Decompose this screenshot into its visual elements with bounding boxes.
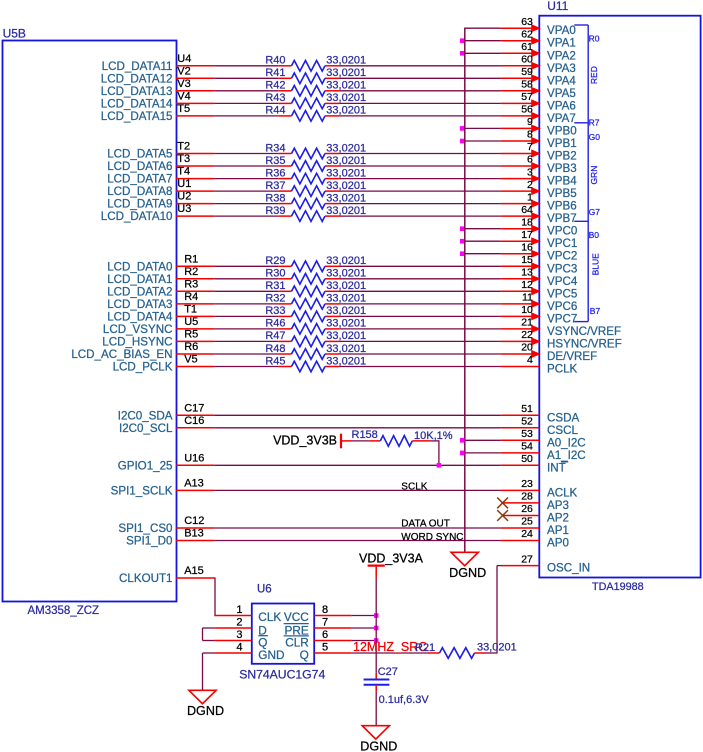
svg-text:LCD_AC_BIAS_EN: LCD_AC_BIAS_EN: [71, 348, 172, 361]
svg-text:R38: R38: [265, 192, 285, 204]
svg-text:SPI1_D0: SPI1_D0: [126, 535, 172, 548]
svg-text:VPA7: VPA7: [547, 112, 576, 125]
svg-text:VPC6: VPC6: [547, 300, 577, 313]
svg-text:AP2: AP2: [547, 512, 569, 525]
svg-text:4: 4: [527, 354, 533, 366]
svg-text:LCD_DATA7: LCD_DATA7: [107, 173, 172, 186]
svg-text:T1: T1: [184, 303, 197, 315]
svg-text:26: 26: [521, 503, 533, 515]
svg-text:33,0201: 33,0201: [326, 255, 366, 267]
svg-text:VPB0: VPB0: [547, 124, 577, 137]
svg-text:C17: C17: [184, 402, 204, 414]
svg-text:LCD_DATA10: LCD_DATA10: [101, 210, 173, 223]
svg-text:PCLK: PCLK: [547, 363, 578, 376]
svg-text:DGND: DGND: [360, 740, 397, 752]
svg-text:33,0201: 33,0201: [326, 330, 366, 342]
svg-text:R5: R5: [184, 328, 198, 340]
svg-text:CSDA: CSDA: [547, 411, 579, 424]
svg-text:A0_I2C: A0_I2C: [547, 436, 586, 449]
svg-text:R33: R33: [265, 305, 285, 317]
svg-text:1: 1: [527, 191, 533, 203]
svg-text:AP3: AP3: [547, 499, 569, 512]
svg-text:18: 18: [521, 216, 533, 228]
svg-text:CLK: CLK: [258, 610, 281, 624]
svg-text:17: 17: [521, 229, 533, 241]
svg-text:U3: U3: [177, 203, 191, 215]
svg-text:R45: R45: [265, 355, 285, 367]
svg-text:VPA3: VPA3: [547, 62, 576, 75]
svg-text:LCD_VSYNC: LCD_VSYNC: [103, 323, 173, 336]
svg-text:33,0201: 33,0201: [326, 192, 366, 204]
svg-text:33,0201: 33,0201: [477, 641, 517, 653]
svg-text:U5B: U5B: [3, 27, 26, 41]
svg-text:50: 50: [521, 453, 533, 465]
svg-text:64: 64: [521, 204, 533, 216]
svg-text:V2: V2: [177, 65, 190, 77]
svg-text:R39: R39: [265, 205, 285, 217]
svg-text:R34: R34: [265, 142, 285, 154]
svg-text:11: 11: [522, 292, 533, 304]
svg-text:G7: G7: [589, 207, 601, 217]
svg-text:VPB1: VPB1: [547, 137, 577, 150]
svg-text:R31: R31: [265, 280, 285, 292]
svg-text:22: 22: [521, 329, 533, 341]
svg-text:GND: GND: [258, 648, 284, 662]
svg-text:GPIO1_25: GPIO1_25: [118, 459, 173, 472]
svg-text:15: 15: [521, 254, 533, 266]
svg-text:I2C0_SDA: I2C0_SDA: [118, 409, 173, 422]
svg-text:25: 25: [521, 516, 533, 528]
svg-text:2: 2: [527, 179, 533, 191]
svg-text:LCD_DATA8: LCD_DATA8: [107, 185, 172, 198]
svg-text:63: 63: [521, 16, 533, 28]
svg-text:VDD_3V3B: VDD_3V3B: [273, 434, 337, 448]
svg-text:12: 12: [521, 279, 533, 291]
svg-text:R37: R37: [265, 180, 285, 192]
svg-text:33,0201: 33,0201: [326, 180, 366, 192]
svg-text:24: 24: [521, 528, 533, 540]
svg-text:VCC: VCC: [284, 610, 309, 624]
svg-text:R35: R35: [265, 155, 285, 167]
svg-text:20: 20: [521, 342, 533, 354]
svg-text:33,0201: 33,0201: [326, 155, 366, 167]
svg-text:R7: R7: [589, 118, 600, 128]
svg-text:G0: G0: [589, 132, 601, 142]
svg-text:5: 5: [322, 641, 328, 653]
svg-text:VPB6: VPB6: [547, 200, 577, 213]
svg-text:AM3358_ZCZ: AM3358_ZCZ: [28, 605, 100, 617]
svg-text:R43: R43: [265, 92, 285, 104]
svg-text:R44: R44: [265, 105, 285, 117]
svg-text:R46: R46: [265, 318, 285, 330]
svg-text:33,0201: 33,0201: [326, 167, 366, 179]
svg-text:60: 60: [521, 54, 533, 66]
svg-text:VDD_3V3A: VDD_3V3A: [359, 552, 424, 566]
svg-text:C16: C16: [184, 415, 204, 427]
svg-text:58: 58: [521, 79, 533, 91]
svg-text:LCD_DATA11: LCD_DATA11: [102, 60, 173, 73]
svg-text:T4: T4: [177, 166, 190, 178]
svg-text:VPB5: VPB5: [547, 187, 577, 200]
svg-text:LCD_DATA6: LCD_DATA6: [107, 160, 172, 173]
svg-text:2: 2: [236, 616, 242, 628]
svg-text:DGND: DGND: [449, 566, 486, 580]
svg-text:DE/VREF: DE/VREF: [547, 350, 597, 363]
svg-text:HSYNC/VREF: HSYNC/VREF: [547, 337, 622, 350]
svg-text:R21: R21: [415, 642, 435, 654]
svg-text:C27: C27: [378, 666, 398, 678]
svg-text:U2: U2: [177, 191, 191, 203]
svg-text:VPB2: VPB2: [547, 150, 577, 163]
svg-text:16: 16: [521, 241, 533, 253]
svg-text:DATA OUT: DATA OUT: [401, 519, 450, 530]
svg-text:33,0201: 33,0201: [326, 92, 366, 104]
svg-text:R36: R36: [265, 167, 285, 179]
svg-text:R3: R3: [184, 278, 198, 290]
svg-text:62: 62: [521, 28, 533, 40]
svg-text:33,0201: 33,0201: [326, 343, 366, 355]
svg-text:LCD_PCLK: LCD_PCLK: [113, 361, 173, 374]
svg-text:R29: R29: [265, 255, 285, 267]
svg-text:33,0201: 33,0201: [326, 67, 366, 79]
svg-text:AP0: AP0: [547, 537, 569, 550]
svg-text:33,0201: 33,0201: [326, 55, 366, 67]
svg-text:V4: V4: [177, 90, 190, 102]
svg-text:VPA6: VPA6: [547, 99, 576, 112]
svg-text:VPA2: VPA2: [547, 49, 576, 62]
svg-text:LCD_HSYNC: LCD_HSYNC: [102, 335, 172, 348]
svg-text:ACLK: ACLK: [547, 486, 578, 499]
svg-text:VPA0: VPA0: [547, 24, 576, 37]
svg-text:AP1: AP1: [547, 524, 569, 537]
svg-text:R0: R0: [589, 34, 600, 44]
svg-text:U16: U16: [184, 452, 204, 464]
svg-text:TDA19988: TDA19988: [592, 581, 644, 593]
svg-text:53: 53: [521, 428, 533, 440]
svg-text:VPB7: VPB7: [547, 212, 577, 225]
svg-text:WORD SYNC: WORD SYNC: [401, 532, 463, 543]
svg-text:VPA4: VPA4: [547, 74, 576, 87]
svg-text:27: 27: [521, 553, 533, 565]
svg-text:1: 1: [236, 604, 242, 616]
svg-text:VSYNC/VREF: VSYNC/VREF: [547, 325, 621, 338]
svg-text:B7: B7: [590, 306, 601, 316]
svg-text:33,0201: 33,0201: [326, 318, 366, 330]
svg-text:U11: U11: [547, 0, 568, 13]
svg-text:OSC_IN: OSC_IN: [547, 562, 590, 575]
svg-text:R4: R4: [184, 291, 198, 303]
svg-text:SPI1_CS0: SPI1_CS0: [118, 522, 172, 535]
svg-text:DGND: DGND: [187, 704, 224, 718]
svg-text:23: 23: [521, 478, 533, 490]
svg-text:GRN: GRN: [589, 166, 599, 185]
svg-text:R2: R2: [184, 266, 198, 278]
svg-text:33,0201: 33,0201: [326, 142, 366, 154]
svg-text:LCD_DATA14: LCD_DATA14: [101, 97, 173, 110]
svg-text:6: 6: [322, 629, 328, 641]
svg-text:SPI1_SCLK: SPI1_SCLK: [111, 484, 173, 497]
svg-text:LCD_DATA12: LCD_DATA12: [101, 72, 173, 85]
svg-text:RED: RED: [589, 66, 599, 84]
svg-text:10: 10: [521, 304, 533, 316]
svg-text:8: 8: [322, 604, 328, 616]
svg-text:LCD_DATA2: LCD_DATA2: [107, 285, 172, 298]
svg-text:V3: V3: [177, 78, 190, 90]
svg-text:33,0201: 33,0201: [326, 280, 366, 292]
svg-text:T2: T2: [177, 141, 190, 153]
svg-text:7: 7: [322, 616, 328, 628]
svg-text:BLUE: BLUE: [590, 253, 600, 276]
svg-text:33,0201: 33,0201: [326, 268, 366, 280]
svg-text:T5: T5: [177, 103, 190, 115]
svg-text:T3: T3: [177, 153, 190, 165]
svg-text:R40: R40: [265, 55, 285, 67]
svg-text:U6: U6: [257, 584, 272, 596]
svg-text:B0: B0: [589, 230, 600, 240]
svg-text:A1_I2C: A1_I2C: [547, 449, 586, 462]
svg-text:33,0201: 33,0201: [326, 105, 366, 117]
svg-text:LCD_DATA1: LCD_DATA1: [107, 273, 172, 286]
svg-text:C12: C12: [184, 515, 204, 527]
svg-text:33,0201: 33,0201: [326, 293, 366, 305]
svg-text:VPA1: VPA1: [547, 37, 576, 50]
svg-text:R158: R158: [352, 429, 378, 441]
svg-text:R1: R1: [184, 253, 198, 265]
svg-text:SCLK: SCLK: [401, 481, 427, 492]
svg-text:CLKOUT1: CLKOUT1: [119, 572, 172, 585]
svg-text:56: 56: [521, 104, 533, 116]
svg-text:R47: R47: [265, 330, 285, 342]
svg-text:R48: R48: [265, 343, 285, 355]
svg-text:51: 51: [521, 403, 533, 415]
svg-text:28: 28: [521, 491, 533, 503]
svg-text:VPC3: VPC3: [547, 262, 577, 275]
svg-text:U1: U1: [177, 178, 191, 190]
svg-text:3: 3: [236, 629, 242, 641]
svg-text:0.1uf,6.3V: 0.1uf,6.3V: [379, 694, 430, 706]
svg-text:U4: U4: [177, 53, 191, 65]
svg-text:R41: R41: [265, 67, 285, 79]
svg-text:4: 4: [236, 641, 242, 653]
svg-text:33,0201: 33,0201: [326, 355, 366, 367]
svg-text:VPC2: VPC2: [547, 250, 577, 263]
svg-text:VPB3: VPB3: [547, 162, 577, 175]
svg-text:54: 54: [521, 441, 533, 453]
svg-text:LCD_DATA4: LCD_DATA4: [107, 310, 173, 323]
svg-text:Q: Q: [300, 648, 309, 662]
svg-text:LCD_DATA0: LCD_DATA0: [107, 260, 172, 273]
svg-text:CSCL: CSCL: [547, 424, 578, 437]
svg-text:9: 9: [527, 116, 533, 128]
svg-text:LCD_DATA9: LCD_DATA9: [107, 198, 172, 211]
svg-text:R30: R30: [265, 268, 285, 280]
svg-text:VPC1: VPC1: [547, 237, 577, 250]
svg-text:VPC7: VPC7: [547, 312, 577, 325]
svg-text:I2C0_SCL: I2C0_SCL: [119, 422, 173, 435]
svg-text:57: 57: [521, 91, 533, 103]
svg-text:INT: INT: [547, 461, 566, 474]
svg-text:VPB4: VPB4: [547, 175, 577, 188]
svg-text:61: 61: [521, 41, 533, 53]
svg-text:10K,1%: 10K,1%: [414, 430, 453, 442]
svg-text:3: 3: [527, 166, 533, 178]
svg-text:33,0201: 33,0201: [326, 80, 366, 92]
svg-text:VPC0: VPC0: [547, 225, 577, 238]
svg-text:R6: R6: [184, 341, 198, 353]
svg-text:R32: R32: [265, 293, 285, 305]
svg-text:6: 6: [527, 154, 533, 166]
svg-text:59: 59: [521, 66, 533, 78]
svg-text:21: 21: [521, 317, 533, 329]
svg-text:7: 7: [527, 141, 533, 153]
svg-text:SN74AUC1G74: SN74AUC1G74: [239, 668, 325, 682]
svg-text:LCD_DATA13: LCD_DATA13: [101, 85, 173, 98]
svg-text:52: 52: [521, 416, 533, 428]
svg-text:B13: B13: [184, 528, 204, 540]
svg-text:VPC5: VPC5: [547, 287, 577, 300]
svg-text:R42: R42: [265, 80, 285, 92]
svg-text:LCD_DATA15: LCD_DATA15: [101, 110, 173, 123]
svg-text:33,0201: 33,0201: [326, 205, 366, 217]
svg-text:A15: A15: [184, 565, 204, 577]
svg-text:V5: V5: [184, 354, 197, 366]
svg-text:8: 8: [527, 129, 533, 141]
svg-text:LCD_DATA3: LCD_DATA3: [107, 298, 172, 311]
svg-text:33,0201: 33,0201: [326, 305, 366, 317]
svg-text:LCD_DATA5: LCD_DATA5: [107, 148, 172, 161]
svg-text:A13: A13: [184, 477, 204, 489]
svg-text:13: 13: [521, 267, 533, 279]
svg-text:U5: U5: [184, 316, 198, 328]
svg-text:VPC4: VPC4: [547, 275, 578, 288]
svg-text:VPA5: VPA5: [547, 87, 576, 100]
